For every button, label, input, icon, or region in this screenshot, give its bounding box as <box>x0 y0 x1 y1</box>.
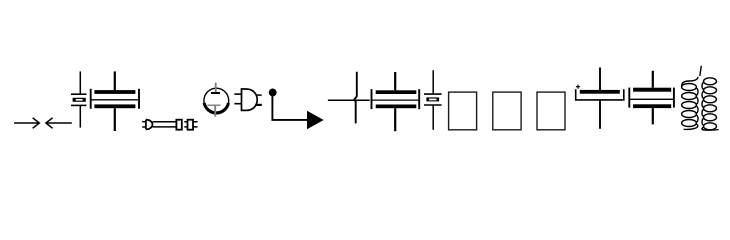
box 3 <box>537 92 565 130</box>
capacitor C4 <box>629 71 674 125</box>
coax jack 1 <box>176 120 181 130</box>
polarized capacitor C3 <box>576 68 624 129</box>
capacitor C1 <box>91 71 139 131</box>
transformer T1 secondary coil <box>702 78 719 130</box>
tube V1 <box>204 83 229 117</box>
crystal Y1 <box>71 71 87 127</box>
crystal Y2 <box>424 70 442 130</box>
plug P1 <box>234 89 261 110</box>
capacitor C2 <box>372 72 420 131</box>
box 1 <box>449 92 477 130</box>
wire from node <box>272 96 307 120</box>
transformer T1 primary coil <box>682 77 698 130</box>
transformer T1 lead tick <box>700 66 702 76</box>
wire vertical with kink <box>354 72 357 124</box>
box 2 <box>493 92 521 130</box>
coax cable <box>153 122 177 127</box>
coax plug <box>142 120 152 130</box>
node dot <box>269 89 277 97</box>
wire arrow right <box>14 118 39 129</box>
wire horizontal <box>328 99 370 101</box>
coax jack 2 <box>184 120 197 130</box>
wire arrow left <box>46 118 72 129</box>
arrowhead <box>307 111 324 130</box>
